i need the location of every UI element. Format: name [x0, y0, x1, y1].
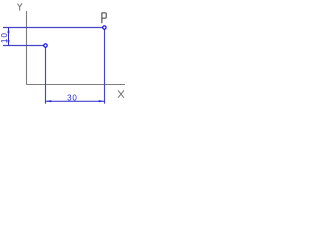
- dimension 30: horizontal dimension line: [46, 100, 105, 102]
- label P: [102, 13, 106, 23]
- X axis: [27, 84, 126, 86]
- dimension 10: upper arrowhead: [7, 28, 9, 33]
- wire: vertical construction line from point A down to 30-dimension: [45, 48, 47, 104]
- point P marker: [103, 26, 106, 29]
- dimension 30: left arrowhead: [46, 100, 52, 102]
- svg-text:30: 30: [67, 94, 78, 103]
- Y axis: [26, 11, 28, 85]
- svg-text:10: 10: [0, 32, 9, 43]
- wire: vertical construction line from P down to 30-dimension: [104, 30, 106, 104]
- dimension 10: lower arrowhead: [7, 40, 9, 45]
- label X: [118, 91, 123, 98]
- label Y: [18, 4, 22, 11]
- dimension 30: right arrowhead: [99, 100, 105, 102]
- dimension 10: vertical dimension line: [8, 28, 10, 46]
- background: [0, 0, 128, 112]
- wire: horizontal construction line from P to left margin: [3, 27, 103, 29]
- point A marker: [44, 44, 47, 47]
- wire: horizontal construction line from point A to left margin: [3, 45, 44, 47]
